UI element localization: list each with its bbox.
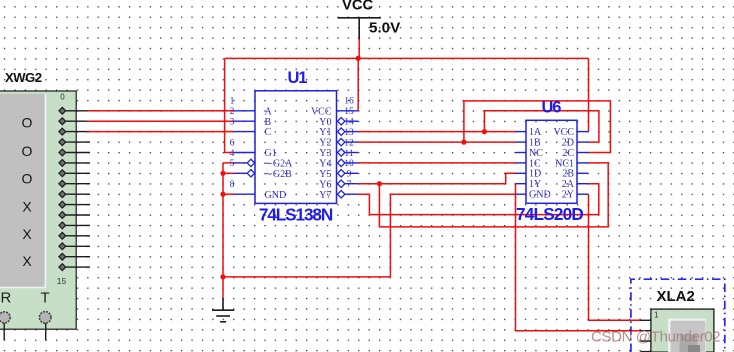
wire ground rail to U6 GND	[223, 194, 516, 277]
U1 pin 9 (Y6)	[319, 170, 358, 191]
svg-text:Y3: Y3	[319, 148, 331, 159]
U1 pin 4 (~G2A)	[230, 149, 293, 170]
XWG2 R and T terminal labels	[1, 290, 50, 307]
svg-text:VCC: VCC	[342, 0, 374, 13]
XWG2 terminal 4	[59, 149, 90, 156]
wire ground chain to ~G2A	[223, 162, 234, 164]
wire U6 2Y to XLA2 input 1	[589, 194, 642, 320]
svg-text:5.0V: 5.0V	[369, 20, 401, 37]
svg-text:CSDN @Thunder02: CSDN @Thunder02	[591, 329, 720, 346]
XWG2 terminal 13	[59, 243, 90, 250]
svg-text:X: X	[22, 253, 32, 269]
svg-text:Y1: Y1	[319, 127, 331, 138]
XWG2 terminal 8	[59, 191, 90, 198]
U1 pin 5 (~G2B)	[230, 159, 292, 180]
junction net Y6	[377, 181, 382, 186]
svg-text:4: 4	[230, 149, 235, 159]
svg-text:X: X	[22, 199, 32, 215]
wire net Y2 branch to U6 2C	[464, 101, 611, 153]
svg-text:GND: GND	[265, 190, 287, 201]
junction ground rail	[220, 274, 225, 279]
svg-text:1D: 1D	[529, 169, 541, 180]
wire net Y7: U1 Y7 to U6 2A	[358, 184, 599, 215]
wire XWG2-0 to U1 A	[87, 110, 234, 112]
wire net Y4: U1 Y4 to U6 1C	[358, 162, 516, 164]
U1 pin 1 (A)	[230, 97, 273, 118]
U6 pin 2C (right)	[562, 148, 588, 159]
power VCC symbol	[338, 18, 381, 40]
svg-text:X: X	[22, 226, 32, 242]
U1 pin 15 (Y0)	[319, 107, 358, 128]
U6 pin 1D (left)	[516, 169, 542, 180]
wire net Y2: U1 Y2 to U6 1B	[358, 141, 516, 143]
wire +5V: VCC stem to rail junction	[358, 39, 360, 58]
wire net Y6 branch to U6 2B	[379, 163, 608, 227]
instrument XLA2 selection box (dash-dot)	[631, 279, 725, 352]
junction ground at ~G2B	[220, 171, 225, 176]
wire U6 1Y to XLA2 input 2	[516, 184, 642, 331]
svg-text:12: 12	[344, 138, 354, 148]
svg-text:Y6: Y6	[319, 179, 331, 190]
svg-text:16: 16	[344, 97, 354, 107]
op-chip U1 74LS138N body	[255, 91, 337, 204]
svg-text:A: A	[265, 106, 273, 117]
svg-text:1A: 1A	[529, 127, 542, 138]
XWG2 terminal 2	[59, 128, 90, 135]
junction net Y1	[482, 129, 487, 134]
U6 pin 1Y (left)	[516, 179, 542, 190]
wire +5V rail (node VCC)	[225, 57, 589, 59]
svg-text:2D: 2D	[562, 138, 574, 149]
U6 pin GND (left)	[516, 190, 551, 201]
XWG2 terminal 6	[59, 170, 90, 177]
svg-text:2B: 2B	[562, 169, 574, 180]
svg-text:9: 9	[347, 170, 352, 180]
junction VCC rail	[356, 56, 361, 61]
svg-text:1: 1	[230, 97, 235, 107]
svg-text:∼G2A: ∼G2A	[265, 159, 294, 170]
U6 pin 2Y (right)	[562, 190, 589, 201]
svg-text:3: 3	[230, 118, 235, 128]
wire +5V drop to U1 G1 enable	[225, 58, 234, 152]
XWG2 terminal 3	[59, 139, 90, 146]
XWG2 terminal 5	[59, 160, 90, 167]
XWG2 R terminal (round)	[0, 312, 10, 323]
wire +5V drop to U1 pin 16	[357, 58, 359, 110]
U1 pin 7 (Y7)	[319, 180, 358, 201]
U1 pin 16 (VCC)	[311, 97, 358, 118]
wire net Y6: U1 Y6 to U6 1D	[358, 173, 516, 183]
XWG2 terminal 10	[59, 212, 90, 219]
XWG2 terminal 15	[59, 264, 90, 271]
svg-text:1C: 1C	[529, 158, 541, 169]
svg-text:5: 5	[230, 159, 235, 169]
XWG2 terminal 12	[59, 232, 90, 239]
XWG2 terminal 11	[59, 222, 90, 229]
svg-text:O: O	[22, 115, 33, 131]
svg-text:G1: G1	[265, 148, 277, 159]
svg-text:15: 15	[57, 276, 67, 286]
svg-text:14: 14	[344, 118, 354, 128]
chip U6 74LS20D body	[526, 120, 577, 203]
U6 pin 2B (right)	[562, 169, 588, 180]
svg-text:13: 13	[344, 128, 354, 138]
svg-text:GND: GND	[529, 190, 551, 201]
U1 pin 8 (GND)	[230, 180, 287, 201]
wire ground branch to U1 GND pin 8	[223, 193, 234, 195]
svg-text:Y7: Y7	[319, 190, 331, 201]
U1 pin 11 (Y4)	[319, 149, 358, 170]
U1 pin 3 (C)	[230, 118, 272, 139]
svg-text:8: 8	[230, 180, 235, 190]
U6 pin NC (left)	[516, 148, 544, 159]
svg-text:74LS20D: 74LS20D	[516, 204, 583, 224]
svg-text:2C: 2C	[562, 148, 574, 159]
ground symbol	[212, 298, 234, 322]
XWG2 terminal 14	[59, 253, 90, 260]
junction ground at GND pin	[220, 192, 225, 197]
svg-text:C: C	[265, 127, 272, 138]
svg-text:15: 15	[344, 107, 354, 117]
U1 pin 2 (B)	[230, 107, 272, 128]
U1 pin 12 (Y3)	[319, 138, 358, 159]
svg-text:2A: 2A	[562, 179, 575, 190]
instrument XLA2 body	[651, 309, 714, 352]
instrument XWG2 body	[0, 91, 76, 329]
wire +5V drop to U6 pin VCC	[588, 58, 590, 131]
XWG2 terminal 7	[59, 180, 90, 187]
XLA2 input terminal 3	[641, 340, 651, 342]
svg-text:1: 1	[654, 311, 659, 320]
junction net Y2	[461, 140, 466, 145]
svg-text:O: O	[22, 171, 33, 187]
U1 pin 10 (Y5)	[319, 159, 358, 180]
XWG2 terminal 0	[59, 107, 90, 114]
wire net Y1 branch to U6 2D	[484, 111, 599, 142]
svg-text:0: 0	[60, 93, 65, 102]
wire XWG2-2 to U1 C	[87, 131, 234, 133]
svg-text:1Y: 1Y	[529, 179, 541, 190]
svg-text:T: T	[41, 290, 50, 307]
svg-text:O: O	[22, 143, 33, 159]
XWG2 T terminal (round)	[39, 312, 51, 324]
wire ground chain vertical	[222, 163, 224, 299]
svg-text:XWG2: XWG2	[5, 70, 42, 85]
svg-text:10: 10	[344, 159, 354, 169]
svg-text:VCC: VCC	[553, 127, 574, 138]
svg-text:Y4: Y4	[319, 159, 331, 170]
U6 pin 1B (left)	[516, 138, 542, 149]
XLA2 input terminal 1	[641, 319, 651, 321]
svg-text:11: 11	[344, 149, 353, 159]
wire stub from T terminal	[45, 323, 47, 340]
XWG2 display digits O O O X X X	[22, 115, 33, 269]
wire XWG2-1 to U1 B	[87, 120, 234, 122]
svg-text:R: R	[1, 290, 12, 307]
U1 pin 13 (Y2)	[319, 128, 358, 149]
svg-text:Y0: Y0	[319, 117, 331, 128]
U1 pin 6 (G1)	[230, 138, 277, 159]
svg-text:7: 7	[347, 180, 352, 190]
svg-text:VCC: VCC	[311, 106, 332, 117]
wire ground branch to ~G2B	[223, 172, 234, 174]
XLA2 input terminal 2	[641, 330, 651, 332]
U6 pin 1A (left)	[516, 127, 543, 138]
wire net Y1: U1 Y1 to U6 1A	[358, 131, 516, 133]
svg-text:B: B	[265, 117, 272, 128]
svg-text:Y2: Y2	[319, 138, 331, 149]
svg-text:XLA2: XLA2	[657, 288, 695, 305]
U6 pin 2A (right)	[562, 179, 589, 190]
svg-text:Y5: Y5	[319, 169, 331, 180]
svg-text:∼G2B: ∼G2B	[265, 169, 293, 180]
svg-text:U6: U6	[542, 99, 562, 117]
XWG2 terminal 1	[59, 118, 90, 125]
svg-text:1B: 1B	[529, 138, 541, 149]
svg-text:74LS138N: 74LS138N	[259, 205, 333, 225]
svg-text:2Y: 2Y	[562, 190, 574, 201]
svg-text:U1: U1	[288, 69, 308, 87]
svg-text:2: 2	[230, 107, 235, 117]
wire stub from R terminal	[3, 323, 5, 340]
U6 pin 1C (left)	[516, 158, 542, 169]
U6 pin 2D (right)	[562, 138, 589, 149]
XLA2 input terminal 4	[641, 351, 651, 352]
U6 pin VCC (right)	[553, 127, 588, 138]
svg-text:6: 6	[230, 138, 235, 148]
svg-text:NC1: NC1	[555, 158, 574, 169]
svg-text:NC: NC	[529, 148, 543, 159]
U1 pin 14 (Y1)	[319, 118, 358, 139]
U6 pin NC1 (right)	[555, 158, 588, 169]
XWG2 terminal 9	[59, 201, 90, 208]
